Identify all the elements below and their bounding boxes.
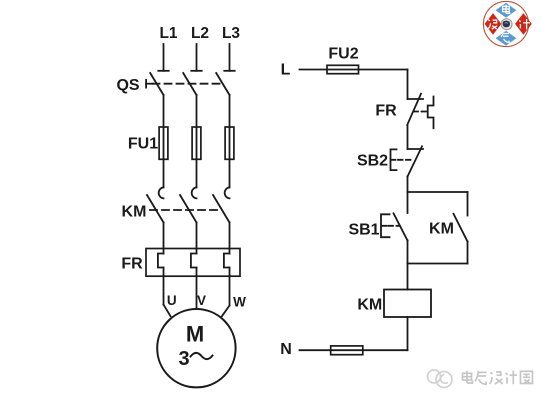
svg-text:FU2: FU2	[328, 46, 358, 63]
motor M circle	[157, 309, 235, 387]
watermark text dian	[463, 371, 473, 383]
svg-text:FU1: FU1	[128, 136, 158, 153]
wire FR heater exit phase 1	[163, 268, 165, 305]
contactor KM pole 1 fixed contact arc	[159, 187, 164, 198]
pushbutton SB2 blade	[408, 146, 423, 176]
thermal relay FR heater element phase 3	[224, 254, 230, 268]
svg-text:SB2: SB2	[357, 153, 388, 170]
logo top diamond	[496, 3, 517, 18]
thermal relay FR NC contact terminal bar	[408, 98, 424, 100]
thermal relay FR heater element phase 2	[191, 254, 197, 268]
wire L line	[300, 69, 408, 71]
switch QS pole 2 terminal bar	[191, 70, 201, 72]
wire KM to FR phase 1	[163, 223, 165, 254]
wire L2 supply drop	[196, 44, 198, 71]
wire QS to FU1 phase 3	[229, 95, 231, 187]
wire QS to FU1 phase 2	[196, 95, 198, 187]
svg-text:L2: L2	[191, 25, 209, 42]
wire N line	[300, 349, 408, 351]
fuse FU1 phase 2 body	[192, 127, 201, 159]
logo right diamond	[515, 13, 532, 35]
wire SB2 to junction	[407, 177, 409, 193]
logo center emblem	[501, 19, 512, 30]
wire motor lead W diagonal	[222, 306, 230, 317]
svg-text:L1: L1	[159, 25, 177, 42]
svg-text:3: 3	[178, 348, 189, 370]
contactor KM coil	[384, 290, 431, 318]
logo glyph dian in top diamond	[503, 5, 510, 14]
thermal relay FR heater element phase 1	[158, 254, 164, 268]
switch QS pole 3 terminal bar	[224, 70, 234, 72]
contactor KM pole 2 blade	[180, 195, 197, 223]
switch QS pole 1 terminal bar	[158, 70, 168, 72]
contactor KM pole 3 blade	[213, 195, 230, 223]
wire KM aux to bottom junction	[467, 242, 469, 264]
watermark logo circle	[428, 370, 453, 388]
wire junction to KM coil	[407, 264, 409, 290]
watermark text quan	[521, 371, 533, 383]
logo glyph qi in bottom diamond	[501, 33, 509, 42]
pushbutton SB2 terminal bar	[408, 148, 424, 150]
logo left diamond	[485, 13, 502, 35]
contactor KM pole 3 fixed contact arc	[225, 187, 230, 198]
contactor KM pole 2 fixed contact arc	[192, 187, 197, 198]
contactor KM pole 1 blade	[147, 195, 164, 223]
switch QS pole 3 blade	[216, 73, 229, 95]
contactor KM auxiliary contact blade	[454, 214, 468, 242]
svg-text:KM: KM	[122, 204, 147, 221]
wire KM to FR phase 3	[229, 223, 231, 254]
pushbutton SB1 dashed link	[389, 225, 400, 227]
fuse FU2 body	[327, 65, 359, 73]
wire KM coil to N	[407, 317, 409, 350]
switch QS pole 2 blade	[183, 73, 196, 95]
wire KM to FR phase 2	[196, 223, 198, 254]
svg-text:V: V	[197, 293, 206, 308]
thermal relay FR trip actuator	[428, 97, 434, 129]
wire L3 supply drop	[229, 44, 231, 71]
wire FR contact to SB2	[407, 125, 409, 149]
svg-text:QS: QS	[116, 77, 139, 94]
svg-text:M: M	[186, 322, 204, 347]
thermal relay FR NC contact blade	[407, 94, 421, 125]
thermal relay FR box	[146, 249, 240, 277]
watermark text ji	[506, 371, 517, 385]
switch QS operating handle	[146, 80, 152, 88]
wire L1 supply drop	[163, 44, 165, 71]
contactor KM linkage dashed line	[150, 209, 222, 211]
wire motor lead U diagonal	[164, 305, 171, 317]
svg-text:FR: FR	[375, 103, 397, 120]
wire top junction bar	[408, 191, 468, 193]
pushbutton SB1 blade	[394, 213, 408, 240]
wire rail L to FR contact	[407, 70, 409, 100]
svg-text:W: W	[233, 295, 246, 310]
pushbutton SB1 button actuator	[381, 214, 390, 237]
wire FR heater exit phase 2	[196, 268, 198, 310]
watermark text qi	[475, 371, 487, 384]
fuse on N line body	[331, 346, 363, 355]
logo glyph ji in right diamond	[519, 19, 530, 29]
wire bottom junction bar	[408, 263, 468, 265]
wire junction to SB1	[407, 192, 409, 213]
fuse FU1 phase 3 body	[225, 127, 234, 159]
wire QS to FU1 phase 1	[163, 95, 165, 187]
svg-text:L: L	[281, 62, 291, 79]
motor tilde symbol	[191, 353, 213, 359]
logo outer circle	[483, 1, 528, 46]
svg-text:U: U	[167, 293, 177, 308]
switch QS pole 1 blade	[150, 73, 163, 95]
svg-text:KM: KM	[357, 296, 382, 313]
wire FR heater exit phase 3	[229, 268, 231, 306]
svg-text:KM: KM	[429, 221, 454, 238]
switch QS linkage dashed line	[153, 83, 224, 85]
svg-text:FR: FR	[121, 256, 143, 273]
logo glyph she in left diamond	[488, 20, 497, 30]
wire junction to KM aux	[467, 192, 469, 216]
thermal relay FR actuator dashed link	[414, 111, 428, 113]
fuse FU1 phase 1 body	[159, 127, 168, 159]
logo bottom diamond	[496, 31, 517, 46]
svg-text:L3: L3	[222, 25, 240, 42]
wire SB1 to bottom junction	[407, 241, 409, 264]
watermark text she	[490, 372, 503, 384]
svg-text:N: N	[280, 341, 292, 358]
svg-text:SB1: SB1	[348, 222, 379, 239]
pushbutton SB2 dashed link	[398, 159, 414, 161]
pushbutton SB2 button actuator	[391, 149, 397, 170]
